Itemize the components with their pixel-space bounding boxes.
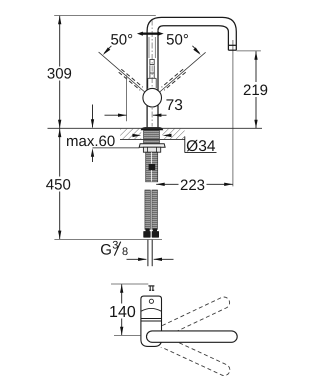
faucet vertical centerline: [151, 20, 153, 127]
ball joint: [143, 88, 162, 107]
hose end nuts: [143, 228, 159, 237]
body dome arc: [141, 308, 162, 311]
svg-text:223: 223: [180, 177, 205, 194]
svg-text:50°: 50°: [166, 32, 189, 49]
svg-text:219: 219: [243, 82, 268, 99]
dimension 450: [46, 129, 162, 240]
spout tube and body outline: [147, 17, 236, 127]
svg-text:73: 73: [166, 97, 183, 114]
swivel spout dashed up position: [145, 295, 232, 377]
svg-text:450: 450: [46, 177, 71, 194]
dimension 223: [156, 177, 233, 194]
dimension 219: [237, 51, 269, 128]
handle tip H: [148, 285, 154, 290]
hoses lower section: [145, 190, 158, 229]
handle lever bar: [137, 32, 164, 36]
countertop bottom line: [120, 138, 185, 140]
dimension 73: [105, 75, 183, 121]
handle tilt 50-degree line right: [158, 52, 206, 93]
hole edge arrow right: [163, 134, 172, 137]
hole edge arrow left: [132, 134, 141, 137]
countertop hatch left: [120, 129, 141, 139]
thread G3/8 outline: [148, 240, 152, 266]
hose bundle upper section: [146, 152, 158, 182]
50-degree leader arrow left: [103, 46, 112, 55]
50-degree leader arrow right: [192, 46, 200, 55]
handle tilt 50-degree line left: [99, 52, 147, 93]
base flange: [141, 127, 164, 130]
svg-text:50°: 50°: [110, 32, 133, 49]
dimension G3/8 arrows: [127, 258, 174, 261]
spout outlet centerline / extension line: [232, 40, 234, 186]
tilted handle dashed outline right: [162, 69, 186, 90]
dimension max.60: [66, 105, 139, 163]
dimension 140: [109, 284, 148, 335]
label G3/8: [100, 239, 128, 258]
dimension 309: [47, 16, 156, 129]
body band lines: [141, 318, 162, 320]
svg-text:8: 8: [122, 246, 128, 258]
svg-text:Ø34: Ø34: [186, 138, 216, 155]
svg-text:max.60: max.60: [66, 133, 115, 150]
swivel spout dashed down position: [145, 329, 232, 377]
body screw circle: [149, 299, 153, 303]
label diameter 34: [185, 137, 217, 156]
tilted handle dashed outline left: [119, 69, 143, 90]
countertop top line: [48, 127, 263, 129]
countertop hatch right: [162, 129, 184, 139]
svg-text:G: G: [100, 241, 112, 258]
mounting washer: [139, 144, 165, 147]
svg-text:140: 140: [109, 304, 136, 321]
mounting nut: [143, 147, 160, 152]
svg-text:309: 309: [47, 66, 72, 83]
faucet body front view: [141, 296, 162, 346]
cartridge details inside body: [149, 37, 155, 58]
threaded shank through counter: [144, 130, 160, 143]
hose clip: [149, 164, 156, 170]
spout pill solid: [147, 331, 238, 342]
